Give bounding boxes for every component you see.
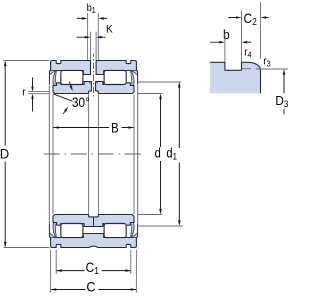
svg-text:r: r	[22, 87, 26, 99]
dim d1 line	[178, 84, 180, 224]
roller bottom-left	[61, 224, 83, 238]
dim C2 arrows	[228, 17, 268, 19]
dim C extension lines	[51, 250, 137, 293]
outer ring top-right section	[96, 61, 136, 75]
dim b1 arrows	[77, 17, 108, 19]
svg-text:D3: D3	[275, 93, 288, 109]
svg-text:d: d	[155, 145, 161, 160]
svg-text:C2: C2	[244, 10, 257, 27]
inner ring top-right half	[96, 82, 134, 94]
detail r3 tangent line	[242, 68, 252, 70]
inner ring face projection lines / dim B extension	[53, 94, 134, 214]
vertical centerline	[93, 54, 95, 99]
dim d line	[160, 96, 162, 213]
detail view outer-ring block fill	[210, 62, 261, 93]
dim C line	[51, 289, 137, 291]
dim d extension lines	[137, 94, 163, 215]
dim K extension lines	[91, 32, 97, 60]
outer ring bottom section	[51, 234, 137, 248]
dim C1 line	[56, 270, 131, 272]
inner ring bottom split line	[93, 217, 95, 227]
seal bottom-right	[132, 234, 137, 238]
dim D line	[4, 62, 6, 246]
dim B line	[53, 127, 134, 129]
dim r extension lines	[28, 92, 49, 94]
horizontal centerline	[44, 153, 144, 155]
dim b extension lines	[225, 11, 242, 62]
seal top-left	[50, 71, 55, 75]
svg-text:d1: d1	[166, 145, 177, 161]
svg-text:b: b	[223, 28, 230, 42]
svg-text:r3: r3	[263, 56, 271, 69]
svg-text:K: K	[106, 23, 113, 36]
dim D extension lines	[4, 61, 50, 248]
dim d1 extension lines	[137, 82, 183, 226]
seal top-right	[132, 71, 137, 75]
bore groove silhouette lines	[89, 94, 99, 213]
detail view outline	[210, 62, 261, 93]
roller top-left	[61, 70, 83, 84]
inner ring split ticks	[90, 82, 97, 84]
dim r arrows	[32, 78, 34, 112]
svg-text:B: B	[111, 119, 119, 136]
roller bottom-right	[104, 224, 126, 238]
svg-text:r4: r4	[244, 47, 252, 60]
roller top-right	[104, 70, 126, 84]
roller leader arrow	[69, 82, 71, 87]
inner ring top-left half	[53, 82, 91, 94]
dim C1 extension lines	[56, 250, 131, 274]
dim b1 extension lines	[88, 13, 99, 60]
seal bottom-left	[50, 234, 55, 238]
dim C2 extension line	[260, 2, 262, 59]
30 deg leader arrow	[63, 109, 66, 114]
dim b arrows	[210, 41, 251, 43]
svg-text:C1: C1	[86, 259, 99, 276]
svg-text:D: D	[0, 146, 9, 162]
svg-text:C: C	[86, 279, 96, 295]
30 deg diagonal line	[53, 94, 72, 101]
inner ring bottom (with bore groove)	[53, 215, 134, 227]
dim D3 line	[283, 72, 285, 115]
dim K arrows	[77, 36, 106, 38]
svg-text:30°: 30°	[72, 94, 90, 110]
outer ring top-left section	[51, 61, 91, 75]
seal face projection lines	[49, 85, 137, 223]
dim D3 extension line	[256, 68, 288, 70]
